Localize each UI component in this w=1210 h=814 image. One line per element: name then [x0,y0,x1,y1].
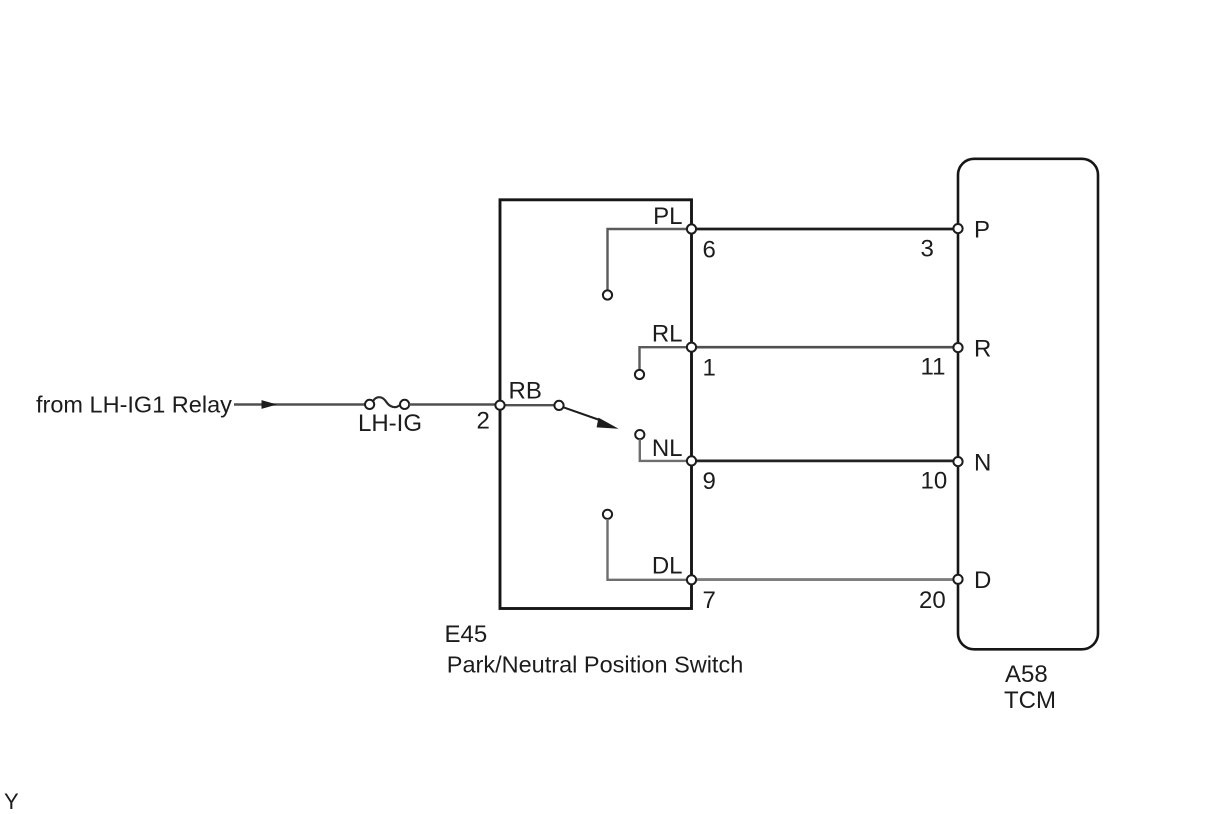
wire: DL contact to terminal 7 [608,519,692,580]
svg-text:N: N [974,449,991,476]
connector A58 TCM outline [958,159,1098,650]
svg-text:D: D [974,567,991,594]
fuse LH-IG terminal circle left [365,400,374,409]
svg-text:LH-IG: LH-IG [358,410,422,437]
wire D: E45 pin 7 to TCM pin 20 [692,578,959,581]
terminal: TCM pin 3 [953,224,962,233]
svg-text:NL: NL [652,435,683,462]
switch pivot circle [554,401,563,410]
terminal: E45 pin 2 [495,401,504,410]
connector E45 box outline [500,200,692,609]
terminal: E45 pin 6 [687,224,696,233]
svg-text:7: 7 [703,587,716,614]
svg-text:Park/Neutral Position Switch: Park/Neutral Position Switch [447,652,743,678]
terminal: TCM pin 20 [953,575,962,584]
svg-text:A58: A58 [1005,661,1048,688]
terminal: E45 pin 7 [687,575,696,584]
svg-text:Y: Y [4,789,19,814]
wire P: E45 pin 6 to TCM pin 3 [692,228,959,231]
svg-text:DL: DL [652,553,683,580]
svg-text:PL: PL [653,203,682,230]
wire: switch common from pin 2 to pivot [500,404,556,406]
svg-text:3: 3 [921,235,934,262]
fuse LH-IG terminal circle right [400,400,409,409]
contact circle DL [603,510,612,519]
terminal: E45 pin 9 [687,456,696,465]
fuse LH-IG squiggle element [373,397,400,407]
wire R: E45 pin 1 to TCM pin 11 [692,346,959,349]
svg-text:RL: RL [652,321,683,348]
svg-text:20: 20 [919,587,946,614]
arrow: current direction on feed wire [262,400,278,409]
svg-text:10: 10 [921,467,948,494]
svg-text:6: 6 [703,237,716,264]
wire: feed from relay to fuse LH-IG [234,403,366,405]
svg-text:11: 11 [921,353,946,380]
switch arm arrowhead pointing to NL contact [597,418,619,429]
switch arm wire [563,407,601,420]
terminal: E45 pin 1 [687,343,696,352]
wire N: E45 pin 9 to TCM pin 10 [692,460,959,463]
contact circle PL [603,290,612,299]
contact circle RL [635,370,644,379]
svg-text:1: 1 [703,354,716,381]
terminal: TCM pin 10 [953,457,962,466]
svg-text:TCM: TCM [1004,687,1056,714]
terminal: TCM pin 11 [953,343,962,352]
contact circle NL [635,430,644,439]
svg-text:9: 9 [703,468,716,495]
svg-text:P: P [974,216,990,243]
svg-text:from LH-IG1 Relay: from LH-IG1 Relay [36,391,232,417]
svg-text:R: R [974,335,991,362]
svg-text:E45: E45 [445,621,488,648]
wire: RL contact to terminal 1 [640,347,692,370]
svg-text:RB: RB [509,378,542,405]
wire: PL contact to terminal 6 [608,229,692,290]
wire: NL contact to terminal 9 [640,439,692,461]
wire: fuse to connector E45 pin 2 [409,403,498,405]
svg-text:2: 2 [477,407,490,434]
